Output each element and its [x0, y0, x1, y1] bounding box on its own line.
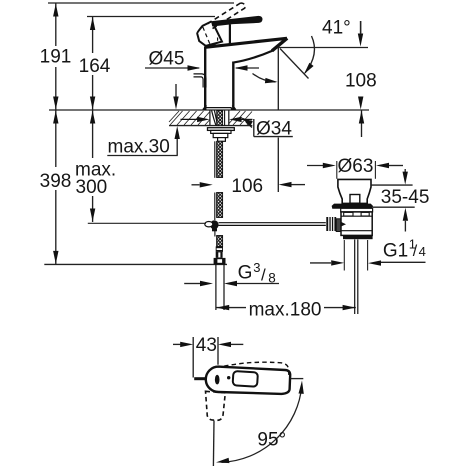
wire: thin line left of tee (max.300 ref)	[88, 222, 206, 224]
dimension max.300	[75, 110, 116, 222]
svg-text:164: 164	[79, 56, 111, 77]
95 arc	[222, 386, 302, 463]
cartridge mark	[215, 375, 220, 385]
svg-text:max.180: max.180	[249, 299, 322, 320]
flexible hose curves	[212, 111, 216, 126]
bottom view: dimension 43	[173, 335, 243, 378]
dimension 35-45	[371, 169, 429, 232]
mounting nut steps	[211, 130, 231, 133]
shank through countertop	[181, 111, 253, 221]
svg-text:191: 191	[40, 47, 72, 68]
svg-text:/: /	[261, 266, 266, 285]
centerline down	[212, 421, 215, 467]
lever raised position (dashed, top view)	[224, 362, 289, 376]
wire: 398 bottom reference line	[44, 263, 227, 265]
body top / spout top edge	[205, 38, 287, 47]
hole dimension arrows	[181, 118, 198, 120]
svg-text:43: 43	[196, 335, 217, 356]
svg-text:/: /	[413, 243, 418, 260]
hole edges	[209, 111, 211, 126]
spout underside curve	[233, 51, 272, 63]
wire: countertop bottom line	[169, 125, 252, 127]
shank tube right edge	[224, 111, 226, 126]
body bottom bar	[343, 235, 373, 239]
body left edge	[204, 47, 206, 111]
svg-text:300: 300	[76, 177, 108, 198]
mounting flange	[208, 128, 235, 131]
flange	[332, 204, 372, 208]
dimension 41deg	[253, 18, 364, 84]
pop-up pull knob (left hook)	[194, 74, 206, 88]
body	[341, 212, 372, 236]
bottom view: faucet top view	[194, 362, 304, 466]
svg-text:4: 4	[419, 244, 426, 259]
pop-up waste assembly	[307, 156, 403, 314]
knuckle hidden edges (dashed)	[203, 27, 210, 44]
svg-text:G: G	[238, 263, 253, 284]
dimension 108	[345, 21, 377, 137]
dimension 398	[40, 110, 227, 264]
spray diagonal line	[280, 49, 309, 79]
wire: reference line (164)	[87, 16, 215, 18]
svg-text:8: 8	[268, 270, 276, 285]
handle knuckle	[197, 22, 222, 46]
svg-text:398: 398	[40, 171, 72, 192]
inlet stub	[194, 377, 206, 380]
tailpipe	[354, 240, 356, 315]
G3/8 pipe	[215, 264, 217, 310]
svg-text:95°: 95°	[257, 430, 286, 451]
dimension Ø63	[307, 165, 324, 167]
below tee: rod, threads, nut	[214, 229, 226, 310]
base plinth line	[205, 107, 232, 109]
threaded shank	[217, 111, 223, 126]
plug head	[338, 179, 371, 203]
label Ø34 with leader box	[241, 111, 297, 139]
base flare	[203, 105, 206, 109]
knurled connector	[326, 217, 336, 231]
wire: top reference line (191)	[48, 2, 234, 4]
wire: horizontal pipe to pop-up waste	[219, 222, 326, 224]
svg-text:3: 3	[253, 260, 260, 275]
dimension G1 1/4	[310, 237, 426, 271]
dimension 164	[79, 17, 111, 111]
threaded rod upper	[217, 141, 223, 177]
svg-text:G1: G1	[383, 241, 408, 262]
tee junction	[205, 220, 219, 231]
dimension 108 vertical from spout tip	[277, 48, 279, 193]
svg-text:108: 108	[345, 71, 377, 92]
body right edge	[232, 62, 234, 111]
dimension max.30	[107, 84, 180, 158]
svg-text:Ø45: Ø45	[149, 49, 185, 70]
dimension 191	[40, 3, 72, 110]
svg-text:Ø63: Ø63	[338, 156, 374, 177]
faucet front view	[194, 3, 288, 110]
svg-text:Ø34: Ø34	[256, 119, 292, 140]
lever neck	[229, 25, 231, 45]
countertop hatch left	[169, 111, 210, 125]
capsule body	[206, 367, 290, 394]
svg-text:max.30: max.30	[108, 137, 170, 158]
sub flange	[341, 208, 373, 212]
dimension G3/8	[184, 260, 279, 286]
lever bar (solid)	[211, 16, 263, 27]
lever down position (dashed)	[206, 391, 226, 420]
pull rod	[214, 141, 216, 178]
spout end face	[272, 38, 287, 51]
95 reference line right	[291, 378, 304, 380]
lift knob	[350, 195, 360, 204]
wire: countertop top line	[49, 109, 369, 111]
svg-text:41°: 41°	[322, 18, 351, 39]
dimension 106	[192, 176, 306, 197]
dimension max.180	[216, 299, 356, 320]
countertop hatch right	[229, 111, 252, 125]
lever raised position (dashed)	[208, 3, 241, 24]
dimension Ø45	[145, 49, 259, 71]
lever window	[233, 371, 258, 387]
wire: 41deg horizontal reference	[278, 47, 368, 49]
svg-text:106: 106	[231, 176, 263, 197]
svg-text:35-45: 35-45	[381, 187, 430, 208]
